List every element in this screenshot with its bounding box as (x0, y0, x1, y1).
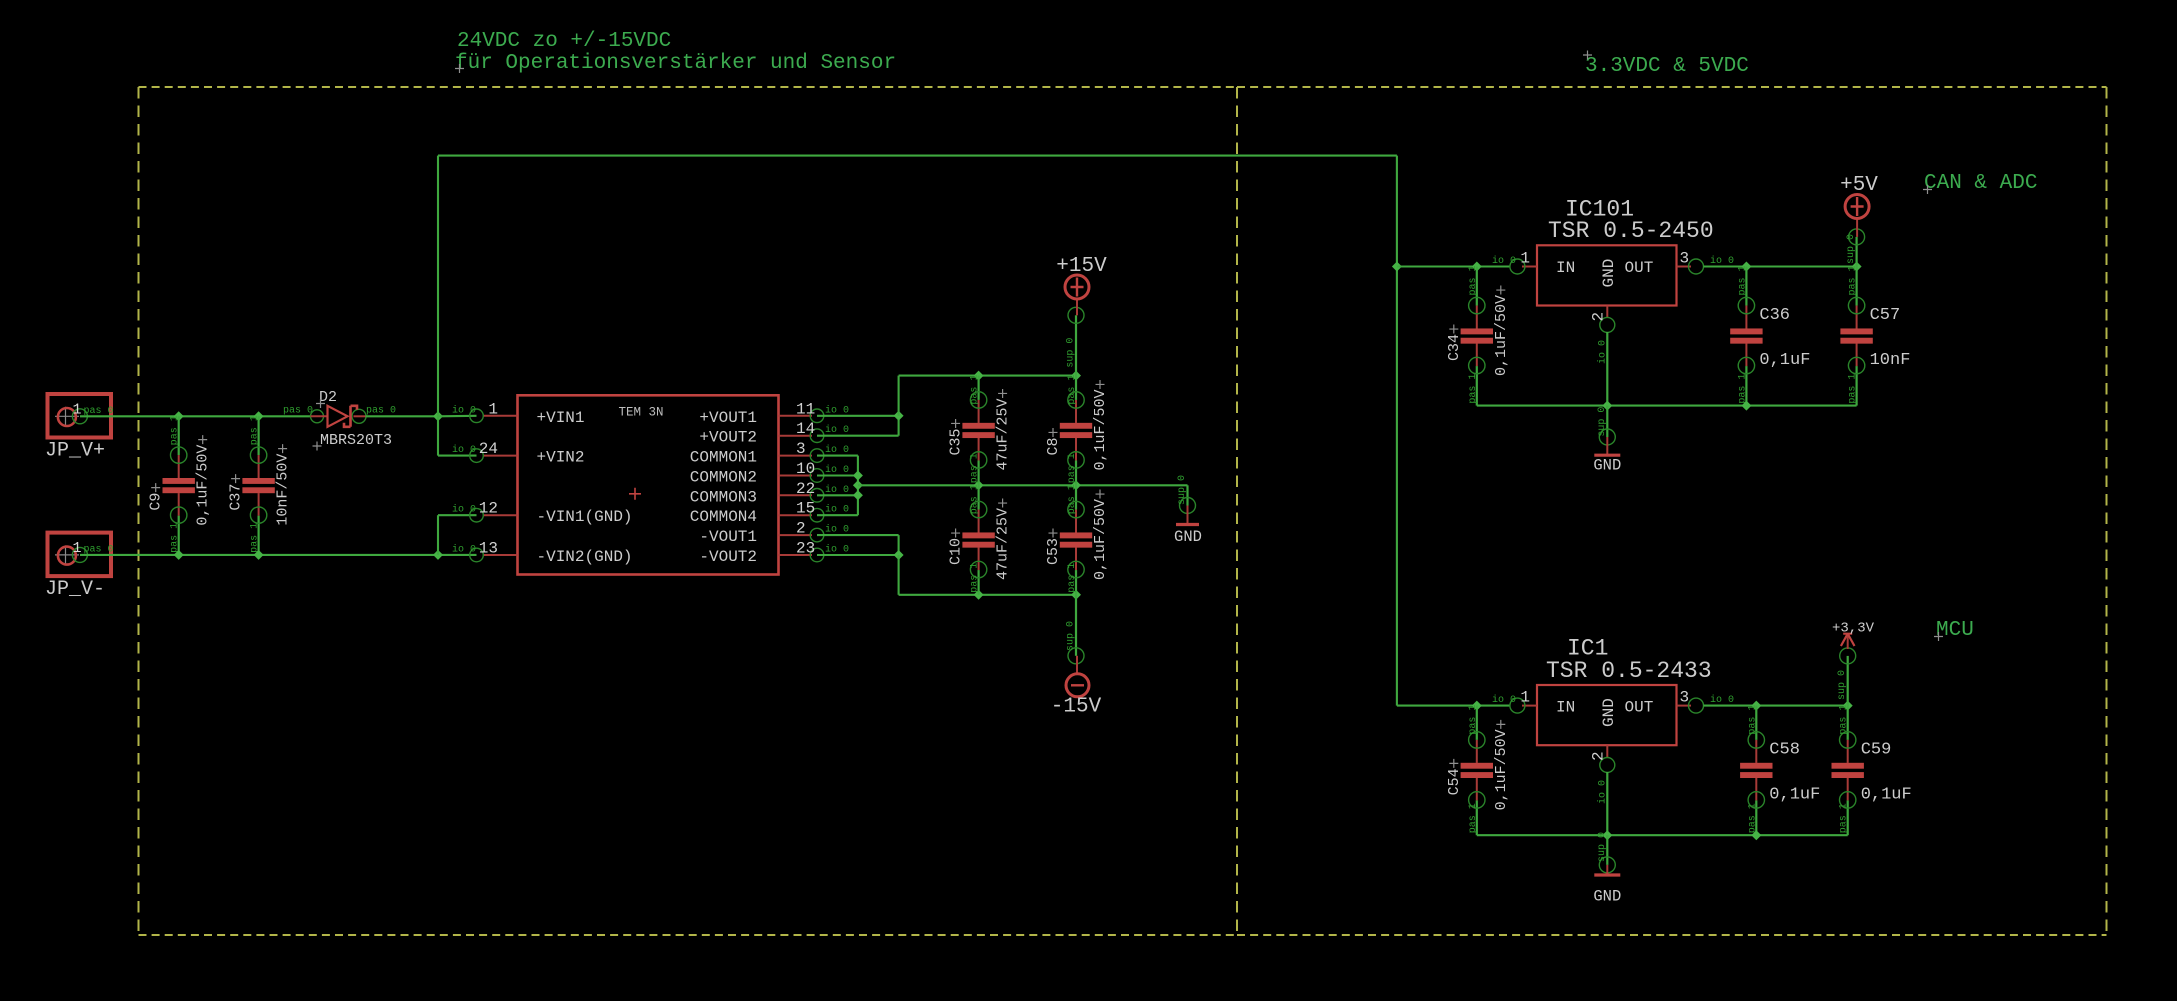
wire long net corner to IC1 pin 1 (1397, 705, 1511, 707)
svg-text:-VIN1(GND): -VIN1(GND) (537, 508, 633, 526)
junction at C57 top / +5V (1852, 262, 1862, 272)
junction at C36 top (1741, 262, 1751, 272)
svg-text:3: 3 (796, 440, 806, 458)
regulator IC101 TSR 0.5-2450 box (1537, 245, 1677, 305)
label: MCU (1934, 619, 1974, 642)
TEM pin 10 COMMON2 (690, 460, 849, 487)
svg-text:pas 1: pas 1 (1067, 563, 1078, 593)
svg-text:sup 0: sup 0 (1066, 621, 1077, 651)
svg-text:io 0: io 0 (825, 544, 849, 556)
svg-text:TSR 0.5-2450: TSR 0.5-2450 (1548, 218, 1714, 244)
title: fuer Operationsverstaerker und Sensor (455, 52, 896, 75)
TEM pin 12 -VIN1(GND) (452, 500, 633, 527)
svg-text:pas 1: pas 1 (1839, 803, 1850, 833)
junction V- at C37 (254, 550, 264, 560)
wire to TEM pin 24 (438, 455, 477, 457)
svg-text:OUT: OUT (1625, 699, 1654, 717)
junction -15 rail at C53 (1071, 590, 1081, 600)
svg-text:0,1uF/50V: 0,1uF/50V (1493, 295, 1510, 376)
IC101 pin 1 IN (1492, 250, 1537, 275)
svg-text:pas 1: pas 1 (970, 375, 981, 405)
wire pin 22 to COMMON bus (817, 494, 858, 496)
svg-text:C37: C37 (228, 484, 245, 511)
wire +15 rail (899, 375, 1076, 377)
TEM pin 1 +VIN1 (452, 400, 585, 427)
junction long net to IC101 (1392, 262, 1402, 272)
regulator IC1 TSR 0.5-2433 box (1537, 685, 1677, 745)
capacitor C59 0,1uF (1832, 705, 1912, 836)
svg-text:+VIN1: +VIN1 (537, 409, 585, 427)
svg-text:pas 1: pas 1 (970, 563, 981, 593)
TEM pin 15 COMMON4 (690, 500, 849, 527)
svg-text:11: 11 (796, 400, 815, 418)
IC101 value label TSR 0.5-2450 (1548, 218, 1714, 244)
svg-text:io 0: io 0 (825, 484, 849, 496)
svg-text:C9: C9 (148, 493, 165, 511)
svg-text:GND: GND (1174, 528, 1202, 546)
svg-text:GND: GND (1593, 457, 1621, 475)
IC101 pin 3 OUT (1677, 250, 1735, 275)
svg-text:io 0: io 0 (1597, 780, 1609, 804)
junction at C34 top (1472, 262, 1482, 272)
IC101 name label (1565, 197, 1634, 223)
svg-text:COMMON3: COMMON3 (690, 488, 757, 506)
svg-text:0,1uF/50V: 0,1uF/50V (1493, 729, 1510, 810)
svg-text:io 0: io 0 (1597, 340, 1609, 364)
svg-text:24: 24 (479, 440, 498, 458)
junction COMMON bus pin22 (853, 490, 863, 500)
TEM pin 14 +VOUT2 (699, 420, 849, 447)
title: 24VDC zo +/-15VDC (457, 30, 671, 53)
svg-text:1: 1 (488, 400, 498, 418)
wire top long net to right section (438, 155, 1397, 157)
svg-text:C36: C36 (1759, 306, 1790, 325)
IC1 name label (1567, 636, 1608, 662)
wire VOUT bus up to +15 rail (898, 376, 900, 416)
svg-text:pas 1: pas 1 (970, 453, 981, 483)
svg-text:pas 1: pas 1 (1468, 374, 1479, 404)
svg-text:COMMON4: COMMON4 (690, 508, 757, 526)
svg-text:+VIN2: +VIN2 (537, 449, 585, 467)
svg-text:0,1uF: 0,1uF (1759, 351, 1810, 370)
junction +15 rail at C8 (1071, 371, 1081, 381)
svg-text:13: 13 (479, 540, 498, 558)
svg-text:für Operationsverstärker und S: für Operationsverstärker und Sensor (455, 52, 896, 75)
svg-text:io 0: io 0 (825, 464, 849, 476)
svg-text:sup 0: sup 0 (1846, 234, 1857, 264)
svg-text:io 0: io 0 (825, 504, 849, 516)
dc-dc converter U1 TEM 3N box (518, 395, 779, 574)
wire junction up to pin 12 row (437, 515, 439, 555)
svg-text:io 0: io 0 (1492, 694, 1516, 706)
svg-text:pas 0: pas 0 (84, 406, 114, 417)
wire -VOUT bus down to -15 rail (899, 555, 1076, 595)
supply +5V symbol (1840, 174, 1878, 267)
IC1 pin 3 OUT (1677, 689, 1735, 714)
wire diode to junction node A (366, 415, 439, 417)
ground GND2 symbol (1593, 406, 1621, 475)
svg-text:MCU: MCU (1936, 619, 1974, 642)
svg-text:C34: C34 (1446, 334, 1463, 361)
svg-text:pas 1: pas 1 (1747, 803, 1758, 833)
svg-text:23: 23 (796, 540, 815, 558)
capacitor C54 0,1uF/50V (1446, 705, 1510, 836)
junction -15 rail at C10 (974, 590, 984, 600)
junction at C54 top (1472, 701, 1482, 711)
svg-text:15: 15 (796, 500, 815, 518)
IC101 pin 2 GND (1590, 306, 1615, 406)
svg-text:io 0: io 0 (452, 544, 476, 556)
svg-text:1: 1 (1520, 689, 1530, 707)
wire node A to TEM pin 1 (438, 415, 477, 418)
svg-text:14: 14 (796, 420, 815, 438)
svg-text:io 0: io 0 (1710, 694, 1734, 706)
svg-text:COMMON2: COMMON2 (690, 469, 757, 487)
svg-text:3: 3 (1680, 250, 1690, 268)
capacitor C35 47uF/25V (948, 375, 1012, 486)
svg-text:JP_V+: JP_V+ (45, 439, 105, 462)
TEM pin 3 COMMON1 (690, 440, 849, 467)
svg-text:12: 12 (479, 500, 498, 518)
svg-text:C58: C58 (1769, 740, 1800, 759)
svg-text:io 0: io 0 (825, 524, 849, 536)
TEM pin 2 -VOUT1 (699, 520, 849, 547)
svg-text:C35: C35 (948, 428, 965, 455)
svg-text:2: 2 (1590, 312, 1608, 322)
svg-text:io 0: io 0 (1710, 255, 1734, 267)
svg-text:pas 1: pas 1 (1848, 265, 1859, 295)
connector JP_V+ (45, 394, 114, 462)
svg-text:-VOUT2: -VOUT2 (699, 548, 757, 566)
svg-text:pas 1: pas 1 (1737, 374, 1748, 404)
capacitor C10 47uF/25V (948, 484, 1012, 595)
svg-text:pas 1: pas 1 (1468, 265, 1479, 295)
svg-text:0,1uF: 0,1uF (1769, 785, 1820, 804)
svg-text:+VOUT2: +VOUT2 (699, 429, 757, 447)
svg-text:GND: GND (1600, 259, 1618, 288)
svg-text:47uF/25V: 47uF/25V (995, 398, 1012, 470)
capacitor C8 0,1uF/50V (1045, 375, 1109, 486)
junction mid rail at C8/C53 (1071, 480, 1081, 490)
IC1 pin 2 GND (1590, 745, 1615, 835)
svg-text:TEM 3N: TEM 3N (619, 406, 664, 420)
capacitor C34 0,1uF/50V (1446, 265, 1510, 405)
wire pin 11 to VOUT bus (817, 415, 899, 417)
svg-text:pas 1: pas 1 (1067, 375, 1078, 405)
svg-text:+5V: +5V (1840, 174, 1878, 197)
TEM pin 23 -VOUT2 (699, 540, 849, 567)
TEM pin 11 +VOUT1 (699, 400, 849, 427)
svg-text:io 0: io 0 (1492, 255, 1516, 267)
wire IC101 OUT to +5V column (1704, 265, 1857, 267)
frame: left section border (24VDC to +/-15VDC) (139, 87, 1238, 935)
capacitor C37 10nF/50V (228, 415, 292, 555)
label: CAN & ADC (1923, 172, 2037, 195)
svg-text:+15V: +15V (1056, 255, 1107, 278)
junction +15 rail at C35 (974, 371, 984, 381)
wire long net down right side (1396, 156, 1398, 706)
svg-text:IN: IN (1556, 259, 1575, 277)
svg-text:pas 1: pas 1 (1468, 705, 1479, 735)
connector JP_V- (45, 533, 114, 601)
svg-text:C59: C59 (1861, 740, 1892, 759)
svg-text:io 0: io 0 (825, 424, 849, 436)
svg-text:C57: C57 (1870, 306, 1901, 325)
supply +3,3V symbol (1832, 621, 1875, 706)
wire pin 2 to -VOUT bus (817, 535, 899, 555)
junction VOUT bus (894, 411, 904, 421)
svg-text:pas 1: pas 1 (1839, 705, 1850, 735)
svg-text:GND: GND (1600, 698, 1618, 727)
svg-text:IN: IN (1556, 699, 1575, 717)
svg-text:-VOUT1: -VOUT1 (699, 528, 757, 546)
svg-text:22: 22 (796, 480, 815, 498)
junction at C58 top (1751, 701, 1761, 711)
svg-text:47uF/25V: 47uF/25V (995, 508, 1012, 580)
ground GND1 symbol (1174, 475, 1202, 546)
svg-text:pas 1: pas 1 (1067, 484, 1078, 514)
wire node A down to pin 24 row (437, 416, 439, 455)
svg-text:0,1uF/50V: 0,1uF/50V (1092, 389, 1109, 470)
title: 3.3VDC & 5VDC (1583, 51, 1749, 79)
svg-text:-15V: -15V (1051, 696, 1102, 719)
TEM pin 13 -VIN2(GND) (452, 540, 633, 567)
wire 5V bottom rail (1477, 405, 1857, 407)
wire V+ rail from JP_V+ to diode D2 (80, 415, 311, 417)
svg-text:C53: C53 (1045, 538, 1062, 565)
svg-text:C8: C8 (1045, 437, 1062, 455)
frame: right section border (3.3VDC & 5VDC) (1237, 87, 2107, 935)
svg-text:pas 1: pas 1 (170, 415, 181, 445)
junction COMMON bus pin10 (853, 471, 863, 481)
junction V+ at C9 (174, 411, 184, 421)
junction V- branch to pin 12 (433, 550, 443, 560)
svg-text:sup 0: sup 0 (1597, 832, 1608, 862)
svg-text:C10: C10 (948, 538, 965, 565)
svg-text:io 0: io 0 (452, 504, 476, 516)
svg-text:JP_V-: JP_V- (45, 578, 105, 601)
wire pin 23 to -VOUT bus (817, 554, 899, 556)
IC1 pin 1 IN (1492, 689, 1537, 714)
capacitor C36 0,1uF (1730, 265, 1810, 405)
junction V- at C9 (174, 550, 184, 560)
svg-text:sup 0: sup 0 (1597, 407, 1608, 437)
svg-text:CAN & ADC: CAN & ADC (1924, 172, 2037, 195)
TEM pin 22 COMMON3 (690, 480, 849, 507)
wire pin 14 to VOUT bus (817, 416, 899, 436)
svg-text:sup 0: sup 0 (1066, 338, 1077, 368)
wire pin 3 to COMMON bus (817, 456, 858, 516)
svg-text:io 0: io 0 (452, 444, 476, 456)
wire long net junction to IC101 pin 1 (1397, 265, 1511, 267)
svg-text:MBRS20T3: MBRS20T3 (320, 432, 392, 449)
svg-text:pas 1: pas 1 (1747, 705, 1758, 735)
capacitor C58 0,1uF (1740, 705, 1820, 836)
svg-text:pas 1: pas 1 (250, 523, 261, 553)
svg-text:OUT: OUT (1625, 259, 1654, 277)
svg-text:pas 1: pas 1 (1067, 453, 1078, 483)
junction V+ at C37 (254, 411, 264, 421)
svg-text:io 0: io 0 (825, 444, 849, 456)
svg-text:10: 10 (796, 460, 815, 478)
supply -15V symbol (1051, 595, 1102, 719)
svg-text:10nF/50V: 10nF/50V (275, 454, 292, 526)
svg-text:C54: C54 (1446, 768, 1463, 795)
junction 5V bottom rail at C36 (1741, 401, 1751, 411)
capacitor C9 0,1uF/50V (148, 415, 212, 555)
junction 3,3V bottom rail at C58 (1751, 830, 1761, 840)
svg-text:pas 1: pas 1 (1468, 803, 1479, 833)
wire pin 15 to COMMON bus (817, 514, 858, 516)
junction mid rail at C35/C10 (974, 480, 984, 490)
wire pin 10 to COMMON bus (817, 474, 858, 476)
wire mid rail COMMON to GND (858, 484, 1188, 486)
svg-text:sup 0: sup 0 (1177, 475, 1188, 505)
svg-text:2: 2 (796, 520, 806, 538)
svg-text:3: 3 (1680, 689, 1690, 707)
svg-text:sup 0: sup 0 (1837, 670, 1848, 700)
wire IC1 OUT to +3,3V column (1704, 705, 1848, 707)
junction node A (433, 411, 443, 421)
wire to TEM pin 12 (438, 514, 477, 516)
capacitor C53 0,1uF/50V (1045, 484, 1109, 595)
svg-text:pas 1: pas 1 (970, 484, 981, 514)
svg-text:pas 1: pas 1 (1848, 374, 1859, 404)
svg-text:TSR 0.5-2433: TSR 0.5-2433 (1546, 658, 1712, 684)
ground GND3 symbol (1593, 832, 1621, 906)
supply +15V symbol (1056, 255, 1107, 376)
svg-text:+3,3V: +3,3V (1832, 621, 1875, 637)
svg-text:-VIN2(GND): -VIN2(GND) (537, 548, 633, 566)
junction 5V bottom rail at GND (1602, 401, 1612, 411)
IC1 value label TSR 0.5-2433 (1546, 658, 1712, 684)
svg-text:pas 0: pas 0 (283, 406, 313, 417)
wire node A up to top long net (437, 156, 439, 417)
wire 3,3V bottom rail (1477, 834, 1848, 836)
svg-text:2: 2 (1590, 751, 1608, 761)
diode D2 MBRS20T3 (283, 389, 396, 451)
capacitor C57 10nF (1840, 265, 1910, 405)
svg-text:pas 1: pas 1 (170, 523, 181, 553)
junction -VOUT bus (894, 550, 904, 560)
svg-text:1: 1 (1520, 250, 1530, 268)
svg-text:pas 1: pas 1 (1737, 265, 1748, 295)
junction COMMON bus mid rail (853, 480, 863, 490)
junction 3,3V bottom rail at GND (1602, 830, 1612, 840)
svg-text:24VDC zo +/-15VDC: 24VDC zo +/-15VDC (457, 30, 671, 53)
svg-text:10nF: 10nF (1870, 351, 1911, 370)
svg-text:io 0: io 0 (825, 404, 849, 416)
svg-text:3.3VDC & 5VDC: 3.3VDC & 5VDC (1585, 55, 1749, 78)
svg-text:GND: GND (1593, 888, 1621, 906)
svg-text:COMMON1: COMMON1 (690, 449, 757, 467)
svg-text:+VOUT1: +VOUT1 (699, 409, 757, 427)
svg-text:pas 0: pas 0 (84, 544, 114, 555)
svg-text:0,1uF: 0,1uF (1861, 785, 1912, 804)
TEM pin 24 +VIN2 (452, 440, 585, 467)
svg-text:0,1uF/50V: 0,1uF/50V (1092, 499, 1109, 580)
wire V- rail from JP_V- to TEM pin 13 (80, 554, 477, 556)
svg-text:0,1uF/50V: 0,1uF/50V (195, 445, 212, 526)
svg-text:pas 0: pas 0 (366, 406, 396, 417)
junction at C59 top / +3,3V (1843, 701, 1853, 711)
svg-text:io 0: io 0 (452, 404, 476, 416)
svg-text:pas 1: pas 1 (250, 415, 261, 445)
